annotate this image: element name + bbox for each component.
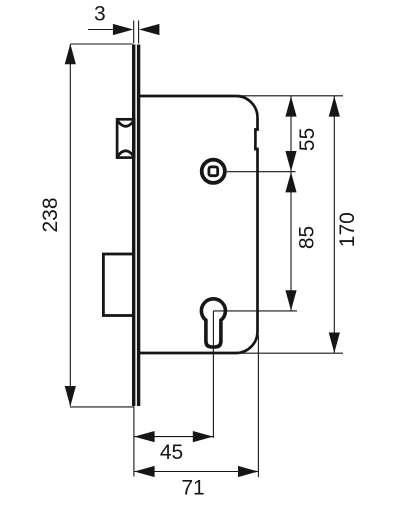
follower circle — [202, 160, 225, 183]
keyhole — [201, 299, 225, 347]
dim 45: arrow right — [193, 431, 213, 442]
dim 85: arrow up — [285, 172, 296, 192]
extension line case bottom right — [236, 352, 343, 354]
dim 55: arrow up — [285, 96, 296, 116]
extension line case right vertical — [257, 335, 259, 477]
dim 45: arrow left — [134, 431, 154, 442]
svg-text:55: 55 — [296, 128, 319, 151]
dim 85: arrow down — [285, 290, 296, 310]
dim 55: arrow down — [285, 151, 296, 171]
dim 238: arrow up — [65, 44, 76, 64]
dim 71: arrow right — [238, 466, 258, 477]
svg-text:238: 238 — [39, 197, 62, 232]
dim 238: bottom extension line — [70, 406, 134, 408]
latch bolt top bevel arc — [118, 121, 133, 126]
svg-text:170: 170 — [336, 212, 359, 247]
dim 3: extension line right — [138, 21, 140, 44]
extension line keyhole horizontal — [213, 310, 297, 312]
svg-text:3: 3 — [94, 2, 106, 25]
dim 3: arrow pointing right — [113, 24, 133, 35]
follower square spindle hole — [209, 167, 218, 176]
dim 3: arrow pointing left — [139, 24, 159, 35]
dim 71: dimension line — [134, 471, 258, 473]
dim 238: arrow down — [65, 386, 76, 406]
svg-text:85: 85 — [296, 226, 319, 249]
deadbolt — [103, 254, 133, 316]
extension line follower — [227, 171, 296, 173]
extension line keyhole vertical — [212, 311, 214, 438]
faceplate left line — [132, 45, 135, 407]
dim 170: arrow down — [329, 333, 340, 353]
dim 238: top extension line — [70, 43, 132, 45]
dim 55-85: dimension line — [290, 96, 292, 311]
dim 170: arrow up — [329, 96, 340, 116]
latch bolt — [117, 119, 134, 157]
svg-text:71: 71 — [181, 477, 204, 500]
dim 170: dimension line — [333, 96, 335, 353]
latch bolt bottom bevel arc — [118, 151, 133, 156]
lock case body outline — [140, 96, 258, 353]
extension line case top right — [236, 95, 343, 97]
dim 45: dimension line — [134, 436, 213, 438]
dim 71: arrow left — [134, 466, 154, 477]
dim 3: extension line left — [133, 21, 135, 44]
dim 238: dimension line — [69, 45, 71, 406]
faceplate right line — [137, 45, 140, 407]
extension line faceplate bottom vertical — [133, 407, 135, 477]
dim 3: leader line — [88, 29, 113, 31]
svg-text:45: 45 — [160, 441, 183, 464]
